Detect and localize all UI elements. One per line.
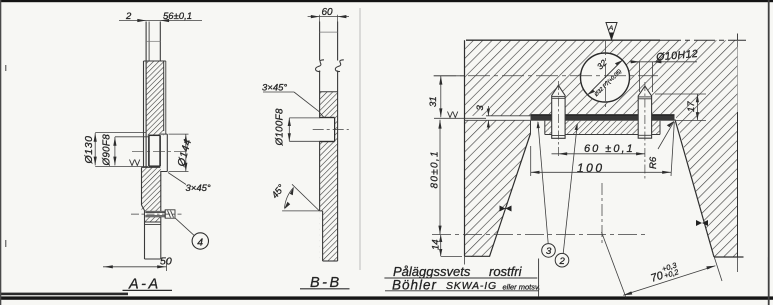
plate outline <box>545 121 660 135</box>
weld note line 2 <box>385 278 540 293</box>
block top right tick <box>737 34 739 48</box>
svg-text:4: 4 <box>197 236 203 248</box>
hole center horizontal chain <box>434 75 658 77</box>
hole center vertical chain <box>605 41 607 108</box>
overlay surface line upper <box>486 115 531 117</box>
dim 3 overlay <box>475 105 490 130</box>
A-A surface finish symbol vv <box>130 160 140 166</box>
A-A screw centerline <box>131 213 182 215</box>
block left edge <box>464 40 466 256</box>
A-A flange right line b <box>165 61 167 134</box>
A-A tube right line top <box>159 22 161 62</box>
A-A dim Ø90F8 <box>101 134 149 167</box>
A-A flange step top face <box>160 133 167 135</box>
B-B left wall lower <box>319 142 321 211</box>
block right edge upper faint <box>737 40 739 112</box>
A-A bore left wall <box>148 135 150 166</box>
B-B angle dim 45 <box>270 183 320 211</box>
sheet border bottom secondary stub <box>0 293 128 296</box>
A-A tube joint line <box>146 40 160 42</box>
surface finish vv right view <box>448 112 458 118</box>
svg-text:45°: 45° <box>270 183 288 201</box>
A-A hub hatch below screw <box>145 217 161 222</box>
A-A chamfer note 3x45 <box>168 173 211 195</box>
overlay surface line lower <box>465 119 532 121</box>
A-A view label <box>123 277 173 293</box>
B-B chamfer note 3x45 <box>262 83 319 112</box>
svg-text:31: 31 <box>428 96 439 107</box>
A-A top dim line <box>119 20 202 22</box>
A-A hub top face <box>142 166 161 168</box>
B-B bar hatch <box>320 92 338 261</box>
A-A top dim arrow right-point <box>137 19 146 22</box>
svg-text:Ø100F8: Ø100F8 <box>275 108 286 146</box>
A-A tube inner-left line <box>145 22 147 168</box>
left edge speck 1 <box>5 65 6 71</box>
A-A hub left face <box>141 167 143 205</box>
svg-text:3×45°: 3×45° <box>186 183 211 194</box>
B-B left wall upper <box>319 22 321 61</box>
A-A flange right line a <box>163 61 165 131</box>
right-of-block white <box>738 40 768 257</box>
A-A screw pos4 body white band <box>145 211 165 217</box>
block top edge chain <box>660 39 746 41</box>
svg-text:50: 50 <box>160 256 172 268</box>
pin left centerline <box>557 81 559 158</box>
A-A dim Ø130 <box>83 133 148 167</box>
svg-text:3: 3 <box>546 246 552 257</box>
B-B dim Ø100F8 <box>275 108 321 146</box>
left edge speck 2 <box>5 240 6 247</box>
groove right slant <box>675 120 714 258</box>
A-A top dim arrow left-point <box>160 19 169 22</box>
sheet border left <box>0 0 1 305</box>
A-A lower tube left wall <box>144 211 146 260</box>
B-B step at 45 chamfer vertex <box>320 210 323 212</box>
sheet border top <box>0 0 773 2</box>
svg-text:17: 17 <box>686 101 697 112</box>
B-B step white (left of lower wall) <box>320 211 323 261</box>
svg-text:Ø90F8: Ø90F8 <box>101 134 112 167</box>
block bottom right edge <box>714 256 744 258</box>
A-A hub chamfer <box>142 205 145 211</box>
B-B bore outline <box>320 117 335 119</box>
balloon 3 <box>537 121 556 257</box>
B-B view label <box>300 275 350 291</box>
B-B break squiggle right <box>335 60 343 72</box>
plate hatch <box>545 121 660 135</box>
A-A bore right wall <box>159 135 161 166</box>
overlay white band <box>465 116 532 121</box>
balloon 2 <box>555 123 578 267</box>
pin left white <box>552 85 565 138</box>
block hatch <box>465 40 738 257</box>
groove left wall below strip <box>530 121 532 134</box>
svg-text:Ø130: Ø130 <box>83 135 95 164</box>
pin right white <box>638 86 651 138</box>
pin right outline <box>638 86 651 138</box>
sheet border right <box>768 0 770 305</box>
block right edge lower <box>737 112 739 257</box>
R6 note <box>648 121 674 169</box>
A-A tube bore-left line top <box>148 22 150 62</box>
groove vertical centerline chain <box>601 183 603 245</box>
block outline <box>465 34 747 258</box>
dim 31 <box>428 76 464 117</box>
B-B bore centerline <box>313 129 349 131</box>
A-A axis centerline <box>132 150 186 152</box>
Ø32 diagonal dimension <box>588 57 623 98</box>
A-A balloon 4 <box>175 218 208 249</box>
A-A bore top edge <box>149 134 161 136</box>
svg-text:R6: R6 <box>648 156 659 169</box>
block bottom left edge <box>465 255 490 257</box>
B-B joint line <box>320 31 338 33</box>
svg-text:100: 100 <box>577 161 605 175</box>
dim Ø10H12 <box>630 48 699 92</box>
A-A screw body lines <box>145 210 165 218</box>
A-A screw protruding tip <box>165 210 175 218</box>
A-A flange top face <box>144 60 166 62</box>
svg-text:80±0,1: 80±0,1 <box>430 150 441 188</box>
svg-text:rostfri: rostfri <box>489 264 523 279</box>
B-B bore chamfer <box>320 113 324 118</box>
pin left outline <box>552 85 565 138</box>
A-A bore bottom edge <box>149 165 161 167</box>
B-B bottom edge <box>323 260 338 262</box>
svg-text:eller motsv.: eller motsv. <box>503 283 541 292</box>
B-B 60 dim extension lines <box>319 15 321 22</box>
A-A flange step right face <box>166 134 168 171</box>
dim 14 <box>431 235 463 257</box>
block left edge lower extension <box>464 256 466 264</box>
dim 17 <box>655 94 706 120</box>
Ø32 hole outline <box>581 53 630 102</box>
A-A dim 50 <box>103 256 172 272</box>
A-A dim Ø144 <box>169 134 195 171</box>
A-A flange hatch <box>146 61 164 135</box>
datum flag A <box>606 23 617 40</box>
weld strip dark <box>531 114 675 120</box>
pin right centerline <box>644 82 646 181</box>
svg-text:SKWA-IG: SKWA-IG <box>446 280 497 292</box>
A-A hub hatch upper <box>142 168 161 212</box>
dim 100 <box>531 122 675 176</box>
dim 80±0,1 <box>430 118 487 234</box>
B-B break squiggle left <box>316 60 324 72</box>
dim 60 ±0,1 <box>552 143 646 155</box>
weld symbol left slant <box>500 206 512 212</box>
A-A hub bottom face lines <box>145 221 161 223</box>
A-A right wall lower <box>160 172 162 260</box>
svg-text:A: A <box>608 25 614 32</box>
svg-text:Böhler: Böhler <box>392 278 437 293</box>
B-B right wall upper <box>337 22 339 61</box>
block top edge solid <box>466 39 660 41</box>
sheet border bottom <box>0 296 773 299</box>
A-A flange step bottom face <box>160 171 167 173</box>
B-B bore recess white <box>319 118 335 142</box>
scan fold line <box>359 8 361 270</box>
weld note box right edge <box>538 259 540 297</box>
A-A tube outer-left line <box>143 61 145 167</box>
B-B hatch top edge <box>320 91 338 93</box>
Ø32 hole white <box>581 53 630 102</box>
svg-text:60 ±0,1: 60 ±0,1 <box>584 143 635 155</box>
dim 70 +0,3/+0,2 <box>602 232 738 298</box>
weld symbol right slant <box>696 220 708 226</box>
svg-text:2: 2 <box>559 256 566 267</box>
B-B dim 60 <box>308 7 349 18</box>
groove left slant <box>490 134 531 257</box>
weld note line 1 <box>384 264 537 279</box>
groove centerline chain <box>432 234 648 236</box>
A-A tube bottom edge <box>145 258 161 260</box>
svg-text:3: 3 <box>475 105 486 111</box>
groove white cutout <box>490 114 715 257</box>
